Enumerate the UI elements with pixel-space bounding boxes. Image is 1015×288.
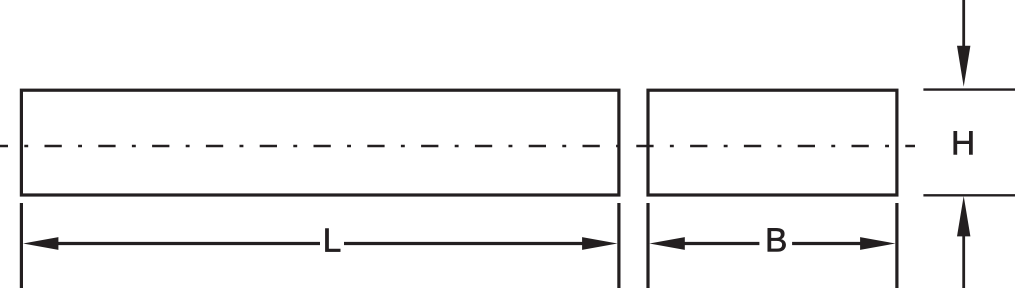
extension line B left bbox=[646, 203, 649, 288]
label B bbox=[768, 228, 786, 251]
H arrow line bottom bbox=[962, 235, 965, 288]
H arrow line top bbox=[962, 0, 965, 47]
extension line L right bbox=[617, 203, 620, 288]
H extension line bottom bbox=[923, 194, 1015, 196]
arrowhead B left bbox=[649, 237, 684, 250]
centerline (dash-dot axis) bbox=[0, 145, 915, 147]
dimension line B left segment bbox=[683, 242, 759, 245]
arrowhead H top (pointing down) bbox=[957, 46, 970, 87]
arrowhead L left bbox=[23, 237, 58, 250]
extension line L left bbox=[20, 203, 23, 288]
dimension line L left segment bbox=[56, 242, 320, 245]
arrowhead H bottom (pointing up) bbox=[957, 196, 970, 236]
H extension line top bbox=[923, 88, 1015, 90]
bar end view rectangle bbox=[648, 90, 897, 195]
dimension line L right segment bbox=[344, 242, 584, 245]
bar side view rectangle bbox=[21, 90, 619, 195]
arrowhead L right bbox=[582, 237, 617, 250]
label H bbox=[954, 131, 973, 154]
label L bbox=[325, 229, 340, 252]
arrowhead B right bbox=[860, 237, 895, 250]
dimension line B right segment bbox=[792, 242, 862, 245]
extension line B right bbox=[895, 203, 898, 288]
